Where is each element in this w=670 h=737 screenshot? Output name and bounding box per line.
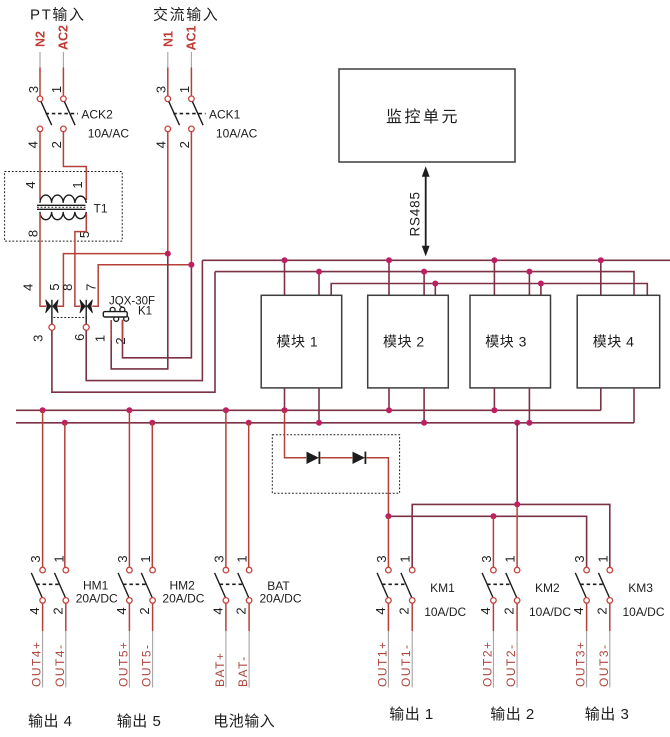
wire between diodes: [320, 457, 352, 459]
breaker BAT pole 2 top terminal: [246, 567, 252, 573]
transformer T1 core line bottom: [37, 208, 86, 210]
breaker KM2 pole 1 blade: [482, 573, 493, 598]
busA junction HM1: [40, 407, 46, 413]
wire module3 bottom left to busA: [493, 388, 495, 410]
breaker KM1 pole 1 blade: [377, 573, 388, 598]
bus B: [16, 422, 634, 424]
svg-text:4: 4: [373, 607, 388, 614]
svg-text:4: 4: [154, 141, 169, 148]
wire HM1 pole1 terminal lead grey: [42, 631, 44, 688]
wire busA to HM2 pole1: [128, 410, 130, 567]
svg-text:OUT2-: OUT2-: [504, 644, 518, 688]
breaker KM1 pole 2 bottom terminal: [409, 598, 415, 604]
svg-text:10A/DC: 10A/DC: [424, 605, 466, 619]
transformer T1 core line middle dotted: [37, 206, 86, 208]
module 2 box: [368, 295, 449, 388]
module 3 box: [470, 295, 551, 388]
bus3 junction at module2: [432, 281, 438, 287]
bus A: [16, 409, 601, 411]
breaker HM1 pole 1 blade: [31, 573, 42, 598]
wire busB to BAT pole2: [248, 423, 250, 568]
wire HM2 pole1 output lead: [128, 603, 130, 631]
breaker KM1 pole 1 bottom terminal: [386, 598, 392, 604]
wire busA to diode input: [285, 410, 307, 458]
breaker ACK1 pole 1 blade: [169, 102, 180, 126]
svg-text:4: 4: [210, 607, 225, 614]
wire AC2 lead red: [62, 68, 64, 97]
svg-text:1: 1: [595, 555, 610, 562]
wire BAT pole2 output lead: [248, 603, 250, 631]
wire module4 bottom right to busB end: [633, 388, 635, 423]
breaker KM2 mechanical link: [487, 583, 510, 585]
svg-text:1: 1: [93, 335, 108, 342]
busA junction module1: [282, 407, 288, 413]
svg-text:3: 3: [31, 335, 46, 342]
svg-text:1: 1: [138, 555, 153, 562]
breaker HM1 pole 2 top terminal: [63, 567, 69, 573]
breaker KM2 pole 1 bottom terminal: [491, 598, 497, 604]
wire ACK2 pin2 to T1 primary right: [63, 132, 86, 200]
svg-text:20A/DC: 20A/DC: [162, 592, 204, 606]
transformer T1 dashed enclosure: [5, 172, 123, 242]
breaker HM2 mechanical link: [123, 583, 146, 585]
wire module2 bottom right to busB: [423, 388, 425, 423]
wire KM3 pole1 terminal lead grey: [586, 631, 588, 688]
relay K1 contact 2 left arrow: [80, 300, 85, 313]
breaker KM2 pole 2 bottom terminal: [514, 598, 520, 604]
svg-text:6: 6: [72, 334, 87, 341]
svg-text:HM2: HM2: [170, 579, 196, 593]
wire KM plus to KM2 pole1: [492, 516, 494, 567]
breaker HM2 pole 1 blade: [118, 573, 129, 598]
breaker BAT pole 1 blade: [215, 573, 226, 598]
bus 2: [215, 272, 634, 296]
bus1 junction at module3: [491, 257, 497, 263]
svg-text:3: 3: [154, 86, 169, 93]
breaker BAT pole 1 top terminal: [223, 567, 229, 573]
svg-text:模块 1: 模块 1: [277, 334, 319, 350]
wire busA to HM1 pole1: [42, 410, 44, 567]
svg-text:PT输入: PT输入: [30, 7, 86, 24]
relay K1 contact 2 bar: [85, 300, 87, 324]
breaker KM3 pole 1 bottom terminal: [584, 598, 590, 604]
wire KM minus to KM2 pole2: [516, 504, 518, 567]
svg-text:4: 4: [571, 607, 586, 614]
svg-text:输出 1: 输出 1: [389, 706, 434, 723]
svg-text:20A/DC: 20A/DC: [76, 592, 118, 606]
svg-text:BAT-: BAT-: [236, 655, 250, 687]
bus2 junction at module3: [526, 269, 532, 275]
svg-text:OUT5-: OUT5-: [140, 644, 154, 688]
svg-text:KM1: KM1: [430, 581, 455, 595]
busB junction module3: [526, 420, 532, 426]
relay K1 pin 3 terminal: [49, 324, 55, 330]
breaker HM2 pole 2 bottom terminal: [150, 598, 156, 604]
svg-text:3: 3: [374, 555, 389, 562]
breaker ACK2 pole 2 top terminal: [61, 96, 67, 102]
busB junction HM1: [62, 420, 68, 426]
svg-text:7: 7: [84, 284, 99, 291]
wire module3 bottom right to busB: [528, 388, 530, 423]
breaker ACK1 pole 2 bottom terminal: [189, 126, 195, 132]
svg-text:1: 1: [51, 555, 66, 562]
KM plus junction KM2: [490, 513, 496, 519]
wire HM2 pole2 output lead: [152, 603, 154, 631]
busA junction HM2: [126, 407, 132, 413]
wire N1 lead red: [167, 68, 169, 97]
wire HM1 pole1 output lead: [42, 603, 44, 631]
svg-text:1: 1: [177, 86, 192, 93]
svg-text:BAT+: BAT+: [213, 652, 227, 687]
svg-text:交流输入: 交流输入: [153, 6, 219, 24]
wire N2 lead red: [39, 68, 41, 97]
breaker HM1 pole 1 top terminal: [40, 567, 46, 573]
wire bus2 to module2 top: [423, 272, 425, 296]
svg-text:OUT4-: OUT4-: [53, 644, 67, 688]
wire KM2 pole2 terminal lead grey: [516, 631, 518, 688]
breaker KM3 pole 2 bottom terminal: [607, 598, 613, 604]
relay K1 contact mechanical link: [54, 317, 85, 319]
svg-text:20A/DC: 20A/DC: [260, 592, 302, 606]
svg-text:4: 4: [114, 607, 129, 614]
busB junction BAT: [246, 420, 252, 426]
breaker KM3 pole 2 top terminal: [607, 567, 613, 573]
svg-text:电池输入: 电池输入: [213, 713, 275, 730]
svg-text:2: 2: [397, 607, 412, 614]
module 4 box: [577, 295, 660, 388]
breaker KM1 pole 2 blade: [401, 573, 412, 598]
breaker HM1 pole 2 blade: [55, 573, 66, 598]
busB junction module2: [421, 420, 427, 426]
wire busB down to KM minus node: [516, 423, 518, 505]
wire HM2 pole2 terminal lead grey: [152, 631, 154, 688]
relay K1 coil loop top 1: [110, 307, 115, 312]
svg-text:3: 3: [115, 555, 130, 562]
wire busA to BAT pole1: [225, 410, 227, 567]
svg-text:N2: N2: [34, 31, 48, 47]
wire AC1 lead red: [190, 68, 192, 97]
svg-text:OUT5+: OUT5+: [116, 640, 130, 687]
svg-text:8: 8: [26, 230, 41, 237]
breaker ACK1 pole 2 blade: [192, 102, 203, 126]
svg-text:OUT3-: OUT3-: [597, 644, 611, 688]
svg-text:模块 2: 模块 2: [383, 334, 425, 350]
breaker ACK2 pole 1 bottom terminal: [37, 126, 43, 132]
svg-text:4: 4: [26, 141, 41, 148]
breaker ACK1 mechanical link: [173, 113, 205, 115]
svg-text:10A/AC: 10A/AC: [216, 127, 258, 141]
wire KM1 pole1 terminal lead grey: [387, 631, 389, 688]
breaker ACK1 pole 2 top terminal: [189, 96, 195, 102]
svg-text:N1: N1: [161, 31, 175, 47]
svg-text:10A/DC: 10A/DC: [529, 605, 571, 619]
wire bus3 to module3 top: [540, 284, 542, 296]
breaker BAT pole 2 bottom terminal: [246, 598, 252, 604]
svg-text:AC2: AC2: [57, 25, 71, 50]
breaker KM2 pole 1 top terminal: [491, 567, 497, 573]
breaker KM3 pole 1 blade: [575, 573, 586, 598]
svg-text:1: 1: [235, 555, 250, 562]
KM minus node junction: [514, 501, 520, 507]
bus3 junction at module3: [538, 281, 544, 287]
svg-text:1: 1: [49, 86, 64, 93]
wire diode output to KM plus node: [366, 458, 388, 517]
relay K1 pin 6 terminal: [83, 324, 89, 330]
wire bus2 to module3 top: [528, 272, 530, 296]
breaker KM3 pole 2 blade: [599, 573, 610, 598]
wire bus2 to module1 top: [318, 272, 320, 296]
wire busB to HM2 pole2: [151, 423, 153, 568]
wire AC2 lead grey: [62, 52, 64, 68]
wire BAT pole1 output lead: [225, 603, 227, 631]
breaker HM2 pole 2 blade: [141, 573, 152, 598]
wire ACK1 pin2 down to node AC1: [190, 132, 192, 265]
relay K1 coil loop bottom 1: [114, 316, 119, 321]
wire BAT pole1 terminal lead grey: [225, 631, 227, 688]
busB junction module1: [316, 420, 322, 426]
wire node AC1 to relay K1 pin7 arm: [92, 265, 191, 307]
svg-text:1: 1: [503, 555, 518, 562]
wire ACK1 pin4 down to node N1: [167, 132, 169, 254]
svg-text:3: 3: [28, 555, 43, 562]
wire AC1 lead grey: [190, 52, 192, 68]
bus2 junction at module1: [316, 269, 322, 275]
bus 3: [331, 284, 647, 296]
svg-text:2: 2: [234, 607, 249, 614]
breaker HM1 pole 2 bottom terminal: [63, 598, 69, 604]
svg-text:8: 8: [60, 284, 75, 291]
svg-text:3: 3: [572, 555, 587, 562]
breaker KM3 pole 1 top terminal: [584, 567, 590, 573]
wire KM2 pole2 output lead: [516, 603, 518, 631]
wire BAT pole2 terminal lead grey: [248, 631, 250, 688]
wire T1 pin8 to relay K1 pin4 arm: [40, 214, 46, 307]
wire relay K1 coil pin2 to node AC1: [123, 265, 192, 358]
bus2 junction at module2: [421, 269, 427, 275]
node AC1 junction: [188, 262, 194, 268]
relay K1 contact 1 bar: [51, 300, 53, 324]
svg-text:4: 4: [478, 607, 493, 614]
wire HM2 pole1 terminal lead grey: [128, 631, 130, 688]
breaker ACK1 pole 1 bottom terminal: [165, 126, 171, 132]
svg-text:OUT1+: OUT1+: [375, 640, 389, 687]
breaker ACK2 pole 1 top terminal: [37, 96, 43, 102]
svg-text:模块 3: 模块 3: [485, 334, 527, 350]
wire module4 bottom left to busA end: [600, 388, 602, 410]
relay K1 coil loop bottom 2: [124, 316, 129, 321]
svg-text:2: 2: [177, 141, 192, 148]
wire module1 bottom right to busB: [318, 388, 320, 423]
svg-text:监控单元: 监控单元: [386, 108, 460, 126]
svg-text:3: 3: [211, 555, 226, 562]
busB junction HM2: [149, 420, 155, 426]
breaker BAT pole 1 bottom terminal: [223, 598, 229, 604]
node N1 junction: [165, 251, 171, 257]
wire KM1 pole2 terminal lead grey: [411, 631, 413, 688]
wire node N1 to relay K1 pin5 arm: [57, 254, 168, 307]
KM plus node junction: [385, 513, 391, 519]
breaker ACK2 pole 1 blade: [41, 102, 52, 126]
svg-text:2: 2: [49, 141, 64, 148]
wire relay K1 coil pin1 to node N1: [111, 254, 168, 369]
wire module2 bottom left to busA: [388, 388, 390, 410]
transformer T1 core line top: [37, 204, 86, 206]
svg-text:KM3: KM3: [628, 581, 653, 595]
wire KM3 pole2 terminal lead grey: [609, 631, 611, 688]
svg-text:2: 2: [594, 607, 609, 614]
svg-text:OUT4+: OUT4+: [30, 640, 44, 687]
svg-text:2: 2: [137, 607, 152, 614]
wire bus1 to module3 top: [493, 260, 495, 295]
wire busB to HM1 pole2: [64, 423, 66, 568]
bus1 junction at module1: [282, 257, 288, 263]
breaker BAT mechanical link: [220, 583, 243, 585]
wire N2 lead grey: [39, 52, 41, 68]
bus1 junction at module2: [386, 257, 392, 263]
relay K1 contact 1 left arrow: [46, 300, 51, 313]
breaker KM2 pole 2 top terminal: [514, 567, 520, 573]
diode D1: [307, 452, 319, 464]
breaker ACK2 pole 2 bottom terminal: [61, 126, 67, 132]
wire HM1 pole2 terminal lead grey: [65, 631, 67, 688]
transformer T1 secondary winding: [40, 212, 86, 220]
breaker KM2 pole 2 blade: [506, 573, 517, 598]
svg-text:4: 4: [27, 607, 42, 614]
svg-text:3: 3: [26, 86, 41, 93]
svg-text:ACK2: ACK2: [81, 108, 113, 122]
svg-text:KM2: KM2: [535, 581, 560, 595]
svg-text:模块 4: 模块 4: [593, 334, 635, 350]
svg-text:OUT2+: OUT2+: [480, 640, 494, 687]
svg-text:OUT1-: OUT1-: [399, 644, 413, 688]
busA junction module2: [386, 407, 392, 413]
breaker HM2 pole 2 top terminal: [150, 567, 156, 573]
KM minus feed bus: [412, 504, 610, 567]
busB junction KM feed: [514, 420, 520, 426]
bus1 junction at module4: [598, 257, 604, 263]
svg-text:输出 2: 输出 2: [490, 706, 535, 723]
svg-text:1: 1: [398, 555, 413, 562]
svg-text:AC1: AC1: [185, 25, 199, 50]
svg-text:3: 3: [479, 555, 494, 562]
svg-text:HM1: HM1: [83, 579, 109, 593]
KM plus feed bus: [388, 516, 586, 567]
svg-text:T1: T1: [94, 202, 108, 216]
wire KM2 pole1 output lead: [492, 603, 494, 631]
breaker KM1 mechanical link: [382, 583, 405, 585]
breaker HM2 pole 1 bottom terminal: [127, 598, 133, 604]
transformer T1 primary winding: [40, 195, 86, 203]
wire KM3 pole2 output lead: [609, 603, 611, 631]
bus 1: [202, 259, 670, 261]
relay K1 coil body: [103, 312, 127, 317]
svg-text:4: 4: [21, 284, 36, 291]
wire bus1 to module2 top: [388, 260, 390, 295]
breaker ACK2 mechanical link: [46, 113, 78, 115]
diode D2: [353, 452, 365, 464]
svg-text:RS485: RS485: [407, 191, 422, 236]
wire KM plus node to KM1 pole1: [387, 516, 389, 567]
breaker ACK1 pole 1 top terminal: [165, 96, 171, 102]
busA junction module3: [491, 407, 497, 413]
svg-text:ACK1: ACK1: [209, 108, 241, 122]
wire bus1 to module4 top: [600, 260, 602, 295]
wire bus3 to module2 top: [434, 284, 436, 296]
wire module1 bottom left to busA: [284, 388, 286, 410]
breaker ACK2 pole 2 blade: [64, 102, 75, 126]
wire relay K1 pin6 to bus 1: [86, 260, 202, 380]
breaker KM1 pole 1 top terminal: [386, 567, 392, 573]
wire KM2 pole1 terminal lead grey: [492, 631, 494, 688]
wire HM1 pole2 output lead: [65, 603, 67, 631]
svg-text:10A/DC: 10A/DC: [623, 605, 665, 619]
busA junction BAT: [223, 407, 229, 413]
svg-text:OUT3+: OUT3+: [574, 640, 588, 687]
svg-text:输出 4: 输出 4: [28, 713, 73, 730]
breaker HM2 pole 1 top terminal: [127, 567, 133, 573]
wire KM3 pole1 output lead: [586, 603, 588, 631]
svg-text:K1: K1: [138, 306, 152, 318]
breaker BAT pole 2 blade: [238, 573, 249, 598]
svg-text:2: 2: [113, 337, 128, 344]
svg-text:输出 5: 输出 5: [117, 713, 162, 730]
svg-text:2: 2: [50, 607, 65, 614]
svg-text:输出 3: 输出 3: [585, 706, 630, 723]
breaker KM1 pole 2 top terminal: [409, 567, 415, 573]
RS485 arrow: [425, 175, 427, 249]
wire N1 lead grey: [167, 52, 169, 68]
relay K1 contact 1 right arrow: [53, 300, 58, 313]
wire bus1 to module1 top: [284, 260, 286, 295]
wire KM1 pole2 output lead: [411, 603, 413, 631]
breaker HM1 pole 1 bottom terminal: [40, 598, 46, 604]
breaker HM1 mechanical link: [36, 583, 59, 585]
wire T1 pin5 to relay K1 pin8 arm: [75, 214, 86, 307]
breaker KM3 mechanical link: [580, 583, 603, 585]
wire ACK2 pin4 to T1 primary left: [39, 132, 41, 200]
relay K1 coil loop top 2: [120, 307, 125, 312]
diode box dashed enclosure: [272, 435, 399, 494]
monitoring unit box: [339, 69, 515, 162]
svg-text:4: 4: [23, 181, 38, 188]
wire relay K1 pin3 to bus 2: [52, 272, 215, 393]
svg-text:1: 1: [70, 181, 85, 188]
wire KM1 pole1 output lead: [387, 603, 389, 631]
module 1 box: [261, 295, 342, 388]
svg-text:10A/AC: 10A/AC: [88, 127, 130, 141]
relay K1 contact 2 right arrow: [87, 300, 92, 313]
svg-text:2: 2: [502, 607, 517, 614]
